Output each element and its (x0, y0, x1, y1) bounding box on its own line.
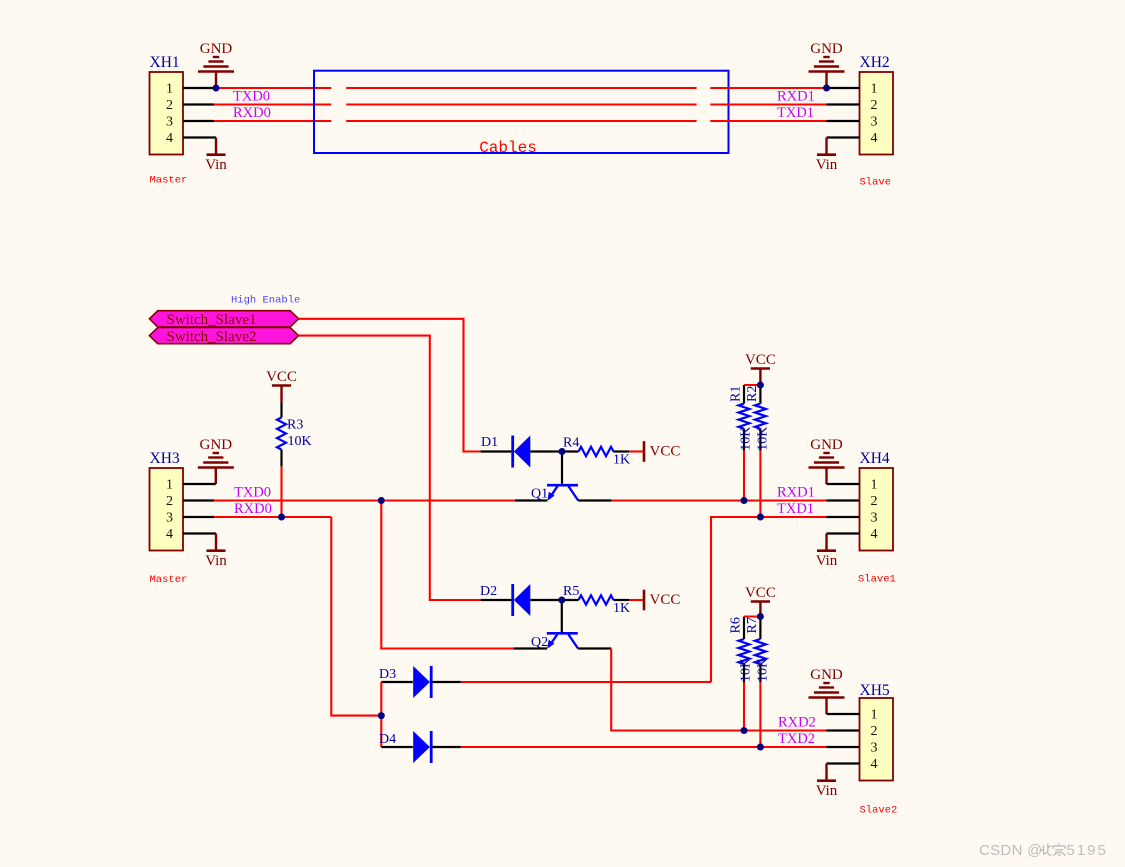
resistor R7 (745, 617, 771, 748)
svg-text:4: 4 (871, 757, 878, 772)
node junction R1/RXD1 (741, 497, 748, 504)
wire diode branch vertical (380, 682, 382, 747)
wire XH4 pin2 stub (827, 499, 860, 501)
svg-text:4: 4 (166, 527, 173, 542)
svg-text:4: 4 (871, 131, 878, 146)
resistor R2 (745, 385, 771, 517)
svg-text:XH1: XH1 (150, 54, 180, 71)
wire D1 anode to node (530, 450, 578, 452)
svg-text:10K: 10K (756, 427, 771, 451)
svg-text:Slave1: Slave1 (858, 574, 896, 586)
svg-text:10K: 10K (739, 658, 754, 682)
wire TXD2 net (461, 746, 827, 748)
svg-text:XH4: XH4 (860, 450, 890, 467)
node junction R3/RXD0 (278, 514, 285, 521)
ground GND (XH4) (809, 453, 845, 484)
svg-text:R3: R3 (287, 418, 303, 433)
svg-text:TXD1: TXD1 (777, 105, 814, 121)
svg-text:1: 1 (871, 82, 878, 97)
wire RXD0 row (214, 516, 331, 518)
node junction R2/TXD1 (757, 514, 764, 521)
port Switch_Slave1 (149, 311, 298, 328)
svg-text:D3: D3 (379, 667, 396, 682)
wire XH3 pin2 stub (183, 499, 214, 501)
svg-text:10K: 10K (739, 427, 754, 451)
svg-text:R5: R5 (563, 584, 579, 599)
wire XH1 pin1 stub (183, 87, 216, 89)
svg-text:R4: R4 (563, 435, 579, 450)
ground GND (XH1) (198, 57, 234, 88)
wire Q2 collector (578, 647, 611, 649)
wire Switch_Slave1 net (299, 319, 481, 452)
wire XH4 pin4 stub (827, 532, 860, 534)
diode D2 (481, 599, 512, 601)
svg-text:3: 3 (871, 511, 878, 526)
svg-text:4: 4 (166, 131, 173, 146)
diode D3 (381, 681, 413, 683)
wire D3 cathode (432, 681, 461, 683)
svg-text:5195: 5195 (1067, 842, 1108, 859)
svg-text:R6: R6 (729, 617, 744, 633)
wire XH5 pin3 stub (827, 746, 860, 748)
wire XH3 pin1 stub (183, 483, 216, 485)
svg-text:2: 2 (871, 724, 878, 739)
svg-text:Cables: Cables (479, 139, 537, 157)
wire XH3 pin4 stub (183, 532, 216, 534)
wire XH1 pin4 stub (183, 136, 216, 138)
power VCC (R6 R7) (745, 585, 776, 618)
svg-text:TXD2: TXD2 (778, 731, 815, 747)
svg-text:1: 1 (166, 82, 173, 97)
svg-text:R2: R2 (745, 386, 760, 402)
svg-text:1: 1 (871, 708, 878, 723)
svg-text:RXD0: RXD0 (233, 105, 271, 121)
svg-text:High Enable: High Enable (231, 295, 300, 307)
connector XH5 (860, 682, 894, 781)
wire XH4 pin1 stub (827, 483, 860, 485)
ground GND (XH2) (809, 57, 845, 88)
connector XH3 (150, 450, 184, 551)
wire XH5 pin4 stub (827, 762, 860, 764)
connector XH2 (860, 54, 894, 155)
svg-text:CSDN @: CSDN @ (979, 842, 1043, 859)
svg-text:Slave: Slave (860, 177, 892, 189)
svg-text:TXD0: TXD0 (233, 89, 270, 105)
svg-text:2: 2 (166, 98, 173, 113)
wire TXD1 net (711, 517, 827, 682)
svg-text:1K: 1K (613, 452, 630, 467)
diode D4 (381, 746, 413, 748)
power Vin (XH2) (816, 138, 838, 174)
svg-text:TXD0: TXD0 (234, 485, 271, 501)
wire XH1 pin2 stub (183, 103, 214, 105)
svg-text:Switch_Slave2: Switch_Slave2 (167, 329, 257, 345)
wire Q2 base (561, 600, 563, 632)
svg-text:3: 3 (871, 741, 878, 756)
wire XH5 pin1 stub (827, 713, 860, 715)
svg-text:TXD1: TXD1 (777, 501, 814, 517)
power VCC (R5) (644, 590, 680, 611)
wire D4 cathode (432, 746, 461, 748)
ground GND (XH3) (198, 453, 234, 484)
svg-text:3: 3 (166, 115, 173, 130)
wire Q1 collector to RXD1 (578, 499, 612, 501)
wire XH1 pin3 stub (183, 120, 214, 122)
resistor R1 (729, 385, 754, 501)
svg-text:XH5: XH5 (860, 682, 890, 699)
wire TXD0 branch down to Q2 (381, 501, 513, 649)
svg-text:R1: R1 (729, 386, 744, 402)
wire XH2 pin1 stub (827, 87, 860, 89)
wire TXD0 branch to Q2 emitter (514, 647, 548, 649)
svg-text:2: 2 (166, 494, 173, 509)
svg-text:RXD1: RXD1 (777, 89, 815, 105)
svg-text:2: 2 (871, 494, 878, 509)
node junction VCC/R6/R7 (757, 613, 764, 620)
wire TXD1 to XH2 (710, 120, 826, 122)
wire RXD0 to cable (left) (214, 120, 331, 122)
svg-text:Master: Master (150, 574, 188, 586)
svg-text:XH3: XH3 (150, 450, 180, 467)
svg-text:D2: D2 (480, 584, 497, 599)
connector XH1 (150, 54, 184, 155)
power Vin (XH3) (205, 534, 227, 570)
node junction XH1 pin1/GND (213, 85, 220, 92)
svg-text:10K: 10K (756, 658, 771, 682)
svg-text:Switch_Slave1: Switch_Slave1 (167, 312, 257, 328)
power Vin (XH5) (816, 764, 838, 800)
cables box (314, 71, 729, 153)
wire XH2 pin2 stub (827, 103, 860, 105)
svg-text:RXD1: RXD1 (777, 485, 815, 501)
svg-text:2: 2 (871, 98, 878, 113)
svg-text:1: 1 (166, 478, 173, 493)
wire TXD0 row (214, 499, 515, 501)
svg-text:R7: R7 (745, 617, 760, 633)
wire RXD0 down to diodes (331, 517, 381, 716)
svg-text:Master: Master (150, 175, 188, 187)
svg-text:RXD2: RXD2 (778, 715, 816, 731)
wire D3 to TXD1 (461, 681, 711, 683)
svg-text:10K: 10K (288, 434, 312, 449)
wire XH5 pin2 stub (827, 729, 860, 731)
transistor Q1 (531, 485, 578, 501)
node junction D1/R4/Q1 (559, 448, 566, 455)
wire R4 to VCC (614, 450, 630, 452)
wire RXD2 net (611, 649, 826, 731)
wire GND net to cable (left) (216, 87, 331, 89)
wire XH2 pin4 stub (827, 136, 860, 138)
diode D1 (481, 450, 512, 452)
power VCC (R1 R2) (745, 352, 776, 385)
svg-text:1: 1 (871, 478, 878, 493)
wire cable line 2 (346, 103, 696, 105)
wire RXD1 row (612, 499, 827, 501)
watermark CSDN (979, 842, 1108, 859)
ground GND (XH5) (809, 683, 845, 714)
svg-text:4: 4 (871, 527, 878, 542)
wire Switch_Slave2 net (299, 336, 481, 600)
wire XH4 pin3 stub (827, 516, 860, 518)
node junction VCC/R1/R2 (757, 382, 764, 389)
svg-text:3: 3 (871, 115, 878, 130)
power Vin (XH4) (816, 534, 838, 570)
wire XH2 pin3 stub (827, 120, 860, 122)
power Vin (XH1) (205, 138, 227, 174)
wire Q1 base (561, 452, 563, 484)
node junction R6/RXD2 (741, 727, 748, 734)
wire R5 to VCC (614, 599, 630, 601)
wire VCC to R1 (744, 384, 760, 386)
node junction TXD0 branch (378, 497, 385, 504)
wire D2 anode to node (530, 599, 578, 601)
node junction XH2 pin1/GND (823, 85, 830, 92)
port Switch_Slave2 (149, 328, 298, 345)
resistor R5 (579, 595, 614, 604)
svg-text:3: 3 (166, 511, 173, 526)
power VCC (R4) (644, 441, 680, 462)
wire XH3 pin3 stub (183, 516, 214, 518)
resistor R3 (266, 369, 312, 517)
resistor R6 (729, 617, 754, 731)
svg-text:D1: D1 (481, 435, 498, 450)
node junction D2/R5/Q2 (558, 597, 565, 604)
transistor Q2 (531, 633, 578, 650)
svg-text:Q1: Q1 (531, 487, 548, 502)
wire TXD0 to cable (left) (214, 103, 331, 105)
svg-text:1K: 1K (613, 601, 630, 616)
wire VCC to R6 (744, 615, 760, 617)
node junction R7/TXD2 (757, 744, 764, 751)
svg-text:XH2: XH2 (860, 54, 890, 71)
resistor R4 (579, 447, 614, 456)
svg-text:Slave2: Slave2 (860, 805, 898, 817)
wire cable line 1 (346, 87, 696, 89)
node junction RXD0/D3/D4 (378, 712, 385, 719)
wire TXD0 to Q1 emitter (515, 499, 548, 501)
connector XH4 (860, 450, 894, 551)
wire GND net to XH2 (710, 87, 826, 89)
svg-text:D4: D4 (379, 732, 396, 747)
wire cable line 3 (346, 120, 696, 122)
wire RXD1 to XH2 (710, 103, 826, 105)
svg-text:RXD0: RXD0 (234, 501, 272, 517)
